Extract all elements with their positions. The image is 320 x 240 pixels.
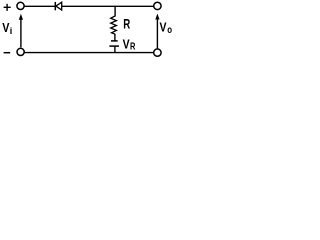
resistor R zigzag — [111, 16, 117, 34]
plus sign (input + polarity) — [4, 4, 11, 11]
battery VR short plate (top) — [111, 40, 118, 42]
wire top left (input to diode) — [24, 5, 55, 7]
diode D (cathode bar) — [54, 2, 56, 10]
svg-text:V: V — [123, 36, 130, 51]
wire bottom — [24, 52, 153, 54]
wire branch down from top node — [114, 6, 116, 16]
terminal circle output top — [154, 2, 161, 9]
wire resistor to battery — [114, 34, 116, 41]
svg-text:R: R — [130, 41, 136, 52]
svg-text:R: R — [123, 17, 130, 32]
minus sign (input - polarity) — [4, 52, 11, 54]
wire battery to bottom node — [114, 47, 116, 53]
terminal circle input top — [17, 2, 24, 9]
Vo voltage arrow (pointing up) — [155, 14, 159, 49]
terminal circle input bottom — [17, 48, 24, 55]
svg-text:V: V — [160, 21, 167, 35]
svg-text:o: o — [167, 25, 172, 36]
svg-text:i: i — [10, 26, 13, 36]
battery VR long plate (bottom) — [109, 45, 119, 47]
diode D (triangle, apex left) — [56, 2, 62, 10]
Vi voltage arrow (pointing up) — [19, 14, 23, 48]
wire top right (diode to output) — [62, 5, 154, 7]
terminal circle output bottom — [154, 49, 161, 56]
